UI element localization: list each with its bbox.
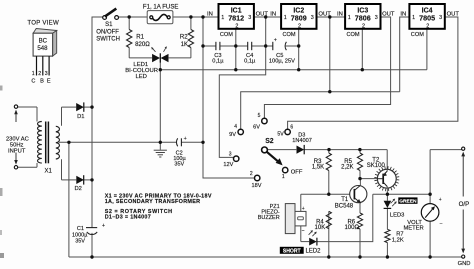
- svg-text:E: E: [47, 78, 51, 84]
- svg-text:C1: C1: [77, 226, 84, 232]
- svg-text:7805: 7805: [419, 13, 435, 22]
- svg-text:2: 2: [235, 23, 238, 29]
- svg-text:3: 3: [229, 152, 232, 158]
- svg-text:3: 3: [375, 15, 378, 21]
- svg-text:1: 1: [348, 15, 351, 21]
- svg-text:+: +: [274, 37, 277, 43]
- svg-text:2: 2: [298, 23, 301, 29]
- svg-text:1: 1: [412, 15, 415, 21]
- svg-text:R1: R1: [136, 34, 144, 41]
- svg-text:IN: IN: [207, 12, 213, 18]
- svg-text:COM: COM: [220, 32, 233, 38]
- svg-text:BUZZER: BUZZER: [258, 215, 280, 221]
- svg-text:7806: 7806: [355, 13, 371, 22]
- svg-text:LED3: LED3: [390, 212, 405, 218]
- svg-text:COM: COM: [347, 32, 360, 38]
- svg-text:LED2: LED2: [306, 249, 322, 255]
- svg-text:R2: R2: [180, 34, 188, 41]
- svg-text:GND: GND: [458, 261, 471, 267]
- svg-text:IN: IN: [337, 12, 343, 18]
- svg-text:1,2K: 1,2K: [392, 238, 404, 244]
- svg-text:1,5K: 1,5K: [312, 165, 324, 171]
- svg-text:2,2K: 2,2K: [341, 165, 353, 171]
- svg-text:BC548: BC548: [335, 203, 354, 209]
- svg-text:OUT: OUT: [256, 12, 269, 18]
- svg-text:D2: D2: [74, 186, 81, 192]
- svg-text:548: 548: [37, 45, 48, 52]
- svg-text:0,1µ: 0,1µ: [212, 59, 224, 65]
- svg-text:SK100: SK100: [367, 163, 386, 169]
- svg-text:1N4007: 1N4007: [292, 138, 312, 144]
- svg-text:1A, SECONDARY TRANSFORMER: 1A, SECONDARY TRANSFORMER: [105, 199, 201, 205]
- svg-text:D1: D1: [77, 114, 84, 120]
- svg-text:18V: 18V: [252, 183, 262, 189]
- svg-text:X1: X1: [45, 168, 53, 174]
- svg-text:SHORT: SHORT: [283, 249, 302, 255]
- svg-text:6V: 6V: [253, 125, 260, 131]
- svg-text:+: +: [102, 223, 105, 229]
- svg-text:0,1µ: 0,1µ: [244, 59, 256, 65]
- svg-text:OUT: OUT: [318, 12, 331, 18]
- svg-text:LED: LED: [135, 74, 146, 80]
- svg-text:3: 3: [311, 15, 314, 21]
- svg-text:12V: 12V: [223, 162, 233, 168]
- svg-text:METER: METER: [403, 226, 423, 232]
- svg-text:OFF: OFF: [291, 170, 303, 176]
- svg-text:S1: S1: [105, 22, 113, 28]
- svg-text:10K: 10K: [315, 225, 326, 231]
- svg-text:35V: 35V: [75, 239, 85, 245]
- svg-text:2: 2: [362, 23, 365, 29]
- svg-text:1: 1: [32, 71, 35, 77]
- svg-text:820Ω: 820Ω: [135, 41, 150, 48]
- svg-text:INPUT: INPUT: [8, 149, 26, 155]
- svg-text:9V: 9V: [229, 132, 236, 138]
- svg-text:B: B: [40, 78, 44, 84]
- svg-text:F1, 1A FUSE: F1, 1A FUSE: [143, 4, 179, 11]
- svg-text:1: 1: [284, 15, 287, 21]
- svg-text:3: 3: [45, 71, 48, 77]
- svg-text:2: 2: [38, 71, 41, 77]
- svg-text:D1–D3 = 1N4007: D1–D3 = 1N4007: [105, 214, 151, 220]
- svg-text:7809: 7809: [291, 13, 307, 22]
- svg-text:3: 3: [248, 15, 251, 21]
- svg-text:1K: 1K: [181, 41, 188, 48]
- svg-text:2: 2: [250, 171, 253, 177]
- svg-text:+: +: [439, 197, 442, 203]
- svg-text:T1: T1: [341, 197, 349, 203]
- svg-text:4: 4: [234, 124, 237, 130]
- svg-text:BC: BC: [39, 38, 48, 45]
- svg-text:GREEN: GREEN: [399, 199, 417, 205]
- svg-text:OUT: OUT: [447, 12, 460, 18]
- svg-text:+: +: [184, 136, 187, 142]
- svg-text:5: 5: [258, 113, 261, 119]
- svg-text:COM: COM: [283, 32, 296, 38]
- svg-text:35V: 35V: [174, 161, 184, 167]
- svg-text:OUT: OUT: [382, 12, 395, 18]
- svg-text:−: −: [302, 228, 305, 234]
- svg-text:IN: IN: [400, 12, 406, 18]
- svg-text:S2: S2: [265, 138, 274, 145]
- svg-text:BI-COLOUR: BI-COLOUR: [125, 68, 158, 74]
- svg-text:1: 1: [221, 15, 224, 21]
- svg-text:+: +: [302, 206, 305, 212]
- svg-text:100µ, 25V: 100µ, 25V: [269, 59, 295, 65]
- svg-text:1: 1: [282, 174, 285, 180]
- svg-text:3: 3: [439, 15, 442, 21]
- svg-text:6: 6: [290, 124, 293, 130]
- svg-text:−: −: [439, 221, 442, 227]
- svg-text:O/P: O/P: [459, 201, 470, 208]
- svg-text:2: 2: [426, 23, 429, 29]
- svg-text:5V: 5V: [277, 132, 284, 138]
- svg-text:100Ω: 100Ω: [344, 225, 359, 231]
- svg-text:IN: IN: [270, 12, 276, 18]
- svg-text:SWITCH: SWITCH: [96, 36, 120, 42]
- svg-text:7812: 7812: [228, 13, 244, 22]
- svg-text:C: C: [31, 78, 35, 84]
- svg-text:ON/OFF: ON/OFF: [96, 30, 119, 36]
- svg-text:COM: COM: [411, 32, 424, 38]
- svg-text:TOP VIEW: TOP VIEW: [27, 19, 59, 26]
